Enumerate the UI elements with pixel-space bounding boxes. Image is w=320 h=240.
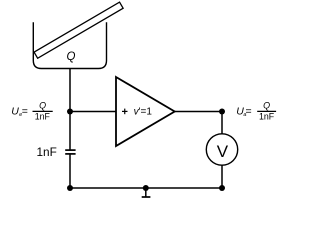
svg-text:Q: Q [39, 100, 46, 110]
svg-text:Q: Q [67, 51, 76, 63]
wire: container to input node [69, 69, 71, 112]
voltmeter V [206, 134, 237, 165]
op-amp plus input sign [122, 109, 128, 115]
capacitor C 1nF plates [65, 150, 75, 154]
wire: input node to capacitor [69, 112, 71, 151]
svg-text:v'=1: v'=1 [134, 106, 153, 117]
wire: op-amp output to node Ua [175, 111, 222, 113]
wire: voltmeter to ground rail [221, 165, 223, 188]
svg-text:=: = [246, 105, 252, 117]
node: ground rail right [219, 185, 225, 191]
svg-text:1nF: 1nF [259, 112, 275, 122]
node: input junction [67, 109, 73, 115]
op-amp U1 (unity gain buffer) [116, 77, 175, 146]
ground rail wire [70, 187, 222, 189]
svg-text:V: V [217, 142, 229, 161]
charge container (sensor vessel) [33, 22, 106, 68]
svg-text:1nF: 1nF [36, 145, 56, 159]
svg-text:Q: Q [263, 100, 270, 110]
wire: input node to op-amp [70, 111, 116, 113]
svg-text:=: = [22, 105, 28, 117]
node: output junction [219, 109, 225, 115]
wire: capacitor to ground rail [69, 154, 71, 188]
label Ue = Q/1nF [11, 100, 53, 121]
ground symbol [142, 188, 151, 197]
svg-text:1nF: 1nF [35, 112, 51, 122]
lever plate (tilted rod) [34, 2, 123, 58]
node: ground tap [143, 185, 149, 191]
svg-text:U: U [11, 105, 19, 117]
node: ground rail left [67, 185, 73, 191]
label Ua = Q/1nF [236, 100, 276, 121]
wire: output node to voltmeter [221, 112, 223, 135]
